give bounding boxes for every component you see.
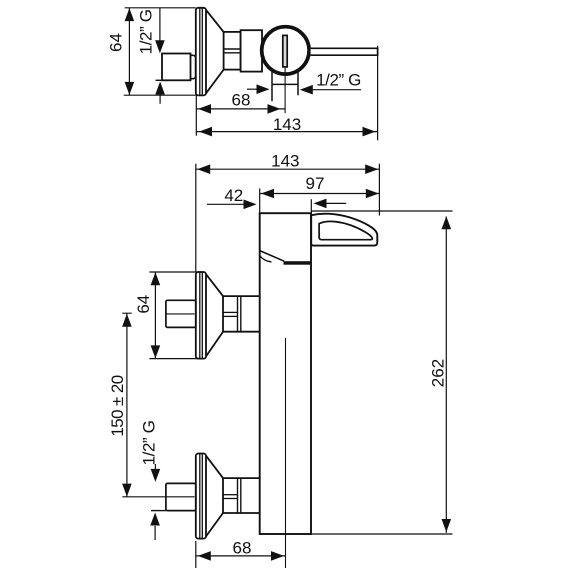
cartridge cap circle [262, 27, 309, 74]
svg-text:42: 42 [224, 186, 243, 205]
upper connector mid lines [223, 311, 238, 313]
escutcheon cone upper edge (top view) [206, 10, 224, 32]
dim 97 line (front view) [260, 193, 380, 195]
flange rim line 1 (top view) [199, 8, 201, 95]
dim 143 arrow left (front view) [197, 164, 210, 174]
lower escutcheon flange (front view) [196, 454, 206, 539]
connector mid line 2 (top view) [224, 52, 241, 54]
dim 143 line (front view) [196, 168, 380, 170]
lever pivot extension line (front view) [310, 199, 312, 215]
svg-text:262: 262 [428, 359, 447, 387]
dim 68 left extension (front view) [195, 541, 197, 568]
dim 64 arrow down (top view) [125, 82, 135, 95]
svg-text:150 ± 20: 150 ± 20 [108, 375, 127, 436]
svg-text:64: 64 [106, 33, 125, 52]
inlet nipple (top view) [162, 54, 191, 81]
dim 42 opposite arrow line (front view) [326, 202, 346, 204]
body centerline (front view) [285, 338, 287, 568]
outlet width arrow right-pointing (top view) [247, 88, 257, 90]
spout chamfer line (front view) [260, 251, 285, 262]
upper nipple (front view) [166, 300, 196, 327]
svg-text:143: 143 [273, 115, 301, 134]
dim 97 arrow right [366, 189, 379, 199]
leader 1/2G arrow down (front view) [151, 469, 161, 482]
dim 150±20 line (front view) [126, 313, 128, 496]
dim 42 arrow line (front view) [207, 203, 244, 205]
dim 68 line (front view) [196, 555, 286, 557]
svg-text:1/2” G: 1/2” G [139, 421, 158, 466]
lower connector double line [237, 478, 239, 513]
dim 97 right extension (front view) [378, 164, 380, 216]
svg-text:1/2” G: 1/2” G [137, 9, 156, 54]
upper escutcheon flange (front view) [196, 272, 206, 359]
body (front view) [260, 213, 311, 534]
lower cone lower edge [206, 513, 223, 536]
dim 68 arrow left (top view) [198, 104, 211, 114]
svg-text:97: 97 [306, 174, 325, 193]
dim 64 line (front view) [154, 272, 156, 359]
lower nipple up arrow line (front view) [154, 526, 156, 540]
spout seam bar (front view) [284, 261, 312, 265]
nipple up arrow head (top view) [155, 82, 165, 95]
valve body (top view) [241, 30, 262, 71]
dim 68 arrow left (front view) [198, 551, 211, 561]
lower flange rim line 1 [199, 454, 201, 538]
lower nipple bottom edge extension [151, 510, 166, 512]
lever (top view) [311, 48, 378, 55]
dim 262 arrow down [442, 519, 452, 532]
dim 64 top extension (front view) [149, 271, 204, 273]
dim 97 arrow left [261, 189, 274, 199]
lower nipple centerline [122, 496, 194, 498]
lever tip extension line (top view) [377, 46, 379, 141]
dim 143 line (top view) [196, 131, 377, 133]
dim 64 arrow down (front view) [151, 345, 161, 358]
dim 262 arrow up [442, 216, 452, 229]
wall face extension line (top view) [195, 95, 197, 135]
lower connector block [223, 478, 260, 513]
svg-text:1/2” G: 1/2” G [316, 70, 361, 89]
dim 42 opposite arrow head [314, 199, 327, 209]
dim 68 arrow right (top view) [268, 104, 281, 114]
connector mid line 1 (top view) [224, 48, 241, 50]
connector block (top view) [224, 32, 241, 70]
dim 68 arrow right (front view) [271, 551, 284, 561]
svg-text:64: 64 [134, 295, 153, 314]
dim 262 top extension (front view) [311, 210, 452, 212]
upper flange rim line 2 [201, 272, 203, 358]
leader 1/2G line (front view) [154, 464, 156, 469]
dim 150±20 arrow up [122, 314, 132, 327]
lower cone upper edge [206, 456, 223, 478]
dim 64 arrow up (top view) [125, 8, 135, 21]
shower outlet right edge (top view) [297, 72, 299, 95]
dim 64 bottom extension (front view) [149, 358, 204, 360]
nipple bottom edge extension [156, 79, 163, 81]
dim 97 left extension (front view) [259, 188, 261, 213]
upper connector block [223, 296, 260, 332]
dim 64 bottom extension line [124, 94, 196, 96]
leader 1/2G arrow down (top view) [155, 40, 165, 53]
shower outlet left edge (top view) [271, 72, 273, 101]
washer at wall (top view) [191, 55, 196, 78]
upper nipple centerline [166, 313, 194, 315]
svg-text:68: 68 [233, 539, 252, 558]
leader 1/2G line (top view) [159, 8, 161, 41]
upper flange rim line 1 [199, 272, 201, 358]
dim 143 arrow right (front view) [365, 164, 378, 174]
outlet centerline (top view) [284, 67, 286, 113]
dim 143 arrow left (top view) [199, 127, 212, 137]
handle lever outer (front view) [311, 214, 377, 246]
svg-text:143: 143 [271, 151, 299, 170]
lower flange rim line 2 [201, 454, 203, 538]
flange rim line 2 (top view) [201, 8, 203, 95]
dim 143 arrow right (top view) [363, 127, 376, 137]
upper cone upper edge [206, 274, 223, 296]
svg-text:68: 68 [232, 90, 251, 109]
dim 64 line (top view) [128, 8, 130, 95]
leader 1/2G right (top view) [312, 89, 361, 91]
nipple up arrow line (top view) [159, 94, 161, 104]
dim 68 line (top view) [196, 108, 285, 110]
dim 262 bottom extension (front view) [312, 533, 453, 535]
upper nipple centerline tick [122, 312, 132, 314]
handle lever inner (front view) [319, 221, 372, 239]
dim 262 line (front view) [445, 217, 447, 533]
dim 150±20 arrow down [122, 484, 132, 497]
lower nipple (front view) [166, 483, 196, 510]
shower outlet bottom edge (top view) [272, 83, 298, 85]
dim 64 top extension line [125, 7, 196, 9]
lower nipple up arrow head [150, 513, 160, 526]
handle slot (top view) [283, 35, 287, 67]
dim 143 left extension (front view) [195, 164, 197, 272]
escutcheon cone lower edge (top view) [206, 70, 224, 94]
upper connector double line [237, 296, 239, 332]
upper cone lower edge [206, 332, 223, 357]
dim 64 arrow up (front view) [151, 272, 161, 285]
dim 42 arrow head [244, 200, 257, 210]
lower connector mid lines [223, 494, 238, 496]
escutcheon flange (top view) [196, 8, 206, 96]
spout chamfer arc (front view) [260, 256, 272, 262]
